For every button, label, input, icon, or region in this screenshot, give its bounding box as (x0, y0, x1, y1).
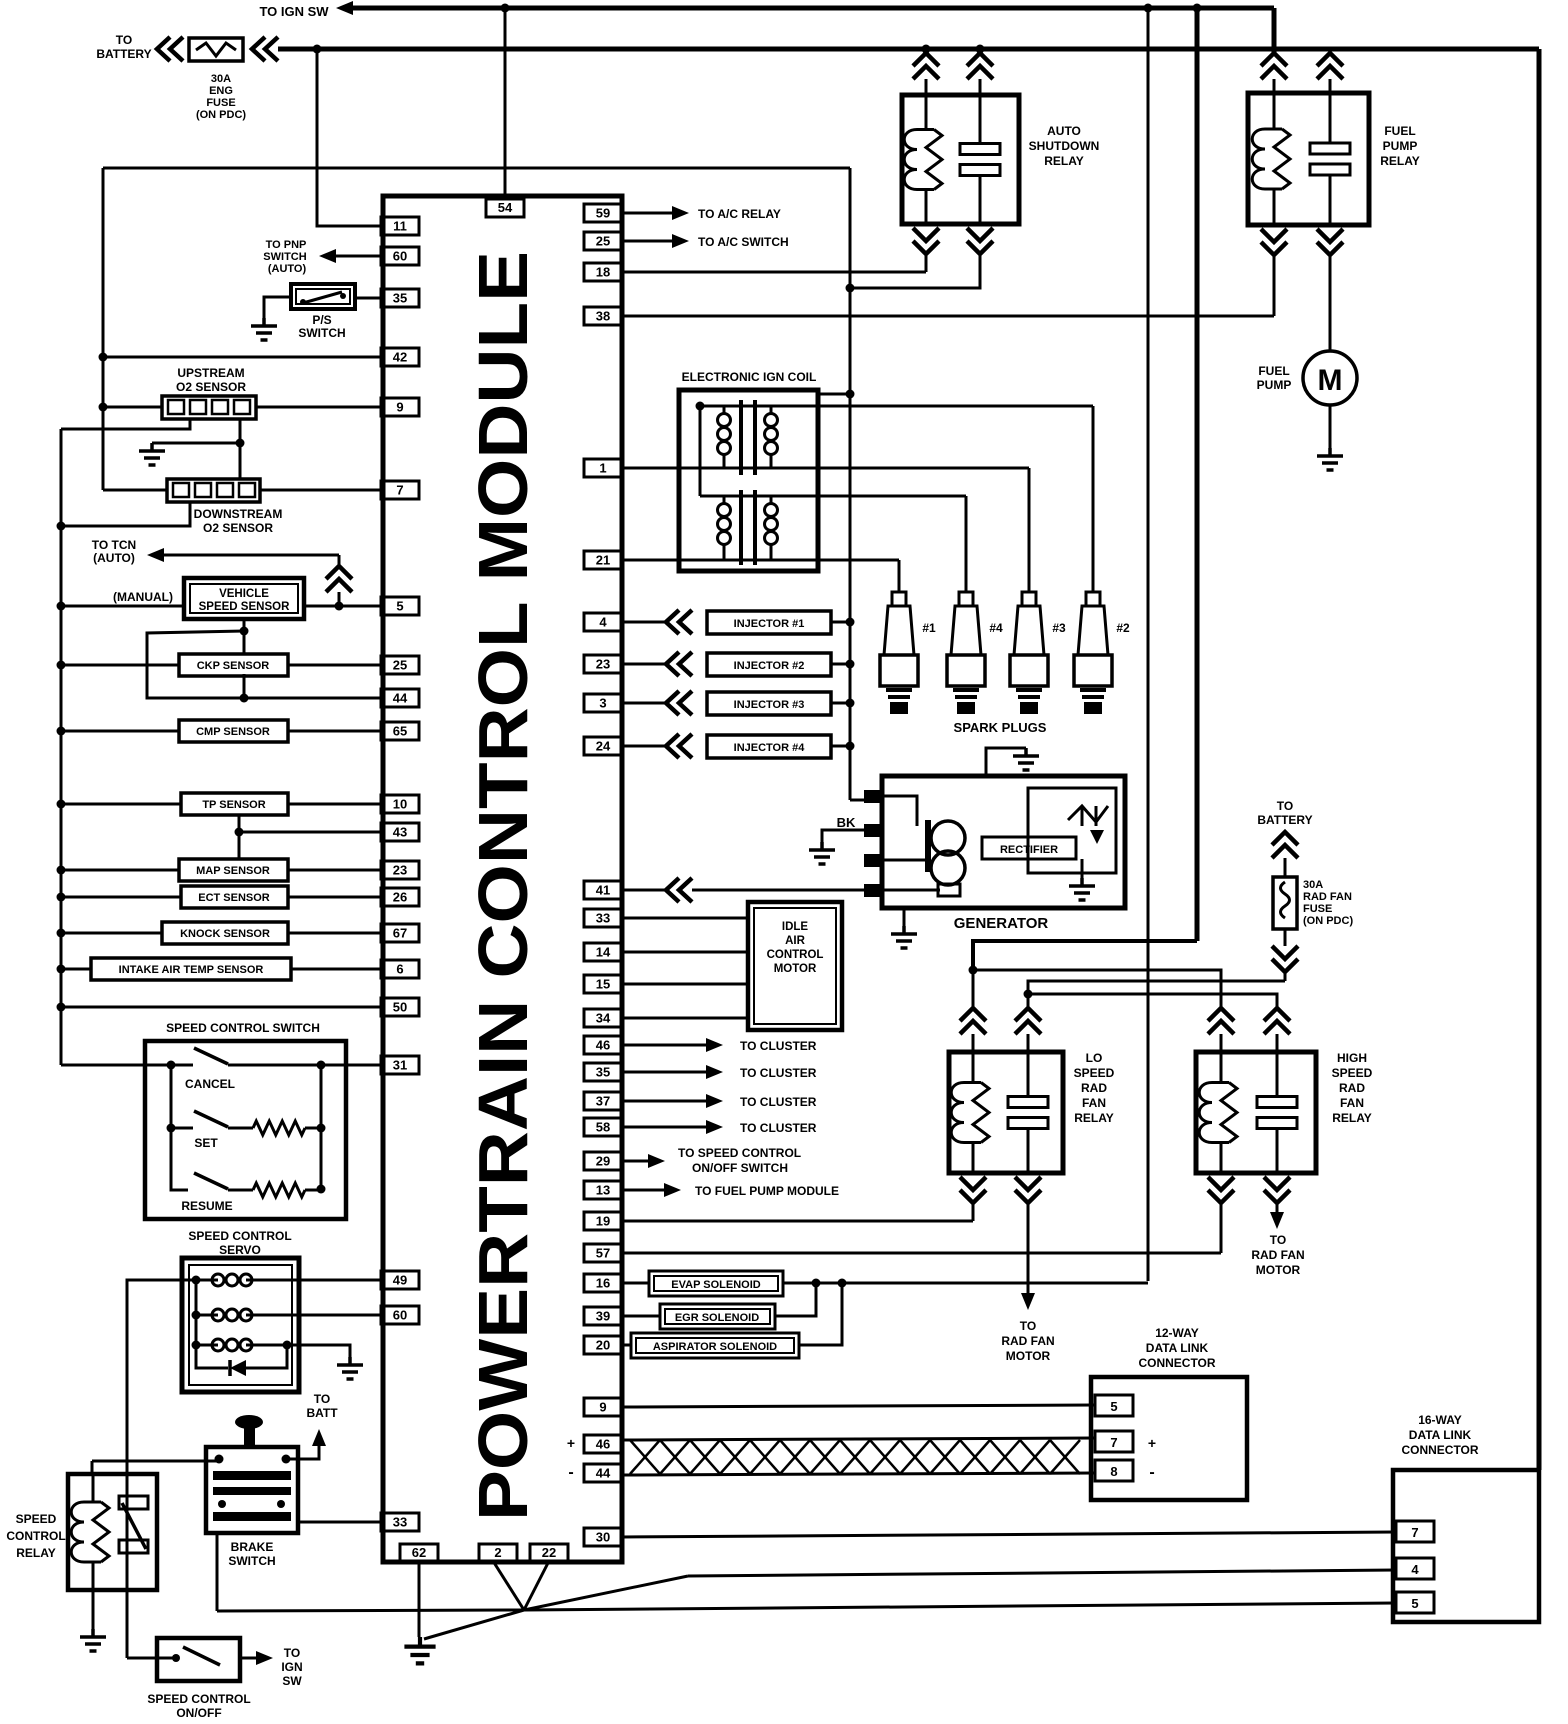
wire - junction diagonal to ground (424, 1610, 524, 1639)
wire - pin 9 to 12-way pin 5 (622, 1405, 1095, 1407)
node - VSS/CKP junction (240, 627, 249, 636)
svg-text:BATTERY: BATTERY (1257, 813, 1312, 827)
connector chevron - ASD coil feed (925, 49, 928, 53)
pin 65 - PCM left (381, 722, 419, 740)
svg-text:BATTERY: BATTERY (96, 47, 151, 61)
wire - servo coil1 to pin 49 (299, 1279, 381, 1282)
node - aspirator tie-in (838, 1279, 847, 1288)
pin 41 - PCM right (584, 881, 622, 899)
CKP sensor - box (179, 654, 288, 676)
pin 34 - PCM right (584, 1009, 622, 1027)
wire - TO BATTERY feed line across top (278, 47, 1539, 52)
pin 25 - PCM right (584, 232, 622, 250)
pin 2 - PCM bottom (479, 1544, 517, 1561)
svg-text:2: 2 (494, 1545, 501, 1560)
generator - rectifier inner box (1028, 788, 1116, 873)
svg-text:BK: BK (837, 815, 856, 830)
svg-text:AUTO: AUTO (1047, 124, 1081, 138)
svg-text:TO A/C RELAY: TO A/C RELAY (698, 207, 781, 221)
ground - P/S switch (251, 318, 277, 340)
svg-text:30: 30 (596, 1530, 610, 1545)
spark plug #1 (892, 591, 906, 594)
node - junction of IGN line and solenoid feed vertical (1144, 4, 1153, 13)
spark plug #2 (1086, 591, 1100, 594)
wire+chevron - VSS connector riser (338, 555, 341, 566)
12-way data link connector - box (1091, 1377, 1247, 1500)
ground - speed control relay (80, 1629, 106, 1651)
pin 4 - PCM right (584, 613, 622, 631)
node - CKP bottom junction (240, 694, 249, 703)
pin 37 - PCM right (584, 1092, 622, 1110)
lo speed rad fan relay - box (949, 1052, 1063, 1173)
svg-text:3: 3 (599, 696, 606, 711)
wire - pin 62 to ground (418, 1561, 421, 1637)
wire - TO TCN line from VSS chevron (164, 554, 339, 557)
spark plug #3 (1022, 591, 1036, 594)
wire - rail2 to pin 50 (61, 1006, 381, 1009)
svg-text:44: 44 (596, 1466, 611, 1481)
wire - coil box to injection feed rail (818, 393, 850, 396)
speed control relay - switch contacts (119, 1496, 148, 1509)
wire+arrow - pin 37 TO CLUSTER (622, 1100, 706, 1103)
node - cancel right contact (317, 1061, 326, 1070)
svg-text:7: 7 (396, 483, 403, 498)
wire - ECT sensor to pin 26 (288, 896, 381, 899)
svg-text:LO: LO (1086, 1051, 1103, 1065)
svg-text:CMP SENSOR: CMP SENSOR (196, 726, 270, 738)
spark plug #4 (959, 591, 973, 594)
wire - servo feed out left (127, 1280, 196, 1658)
svg-text:DATA LINK: DATA LINK (1409, 1428, 1472, 1442)
ground - generator case (891, 926, 917, 948)
generator - terminal 2 (864, 824, 884, 837)
node - rail2 junction VSS (57, 602, 66, 611)
wire - left rail1 bottom to downstream O2 connector (103, 489, 167, 492)
svg-text:PUMP: PUMP (1257, 378, 1292, 392)
wire - CKP sensor to pin 25 (288, 664, 381, 667)
pin 7 - 16-way connector (1396, 1521, 1434, 1542)
generator - terminal 3 (864, 854, 884, 867)
svg-text:TO: TO (116, 33, 132, 47)
arrow - to ign sw (left) (336, 1, 353, 15)
svg-text:IGN: IGN (281, 1660, 302, 1674)
node - servo coil3 right junction (283, 1341, 292, 1350)
generator - box (882, 776, 1125, 908)
EVAP solenoid - box (622, 1282, 649, 1285)
wire - right border from battery line to 16-way connector (1537, 49, 1542, 1470)
pin 13 - PCM right (584, 1181, 622, 1199)
injector #1 (622, 621, 666, 624)
svg-text:25: 25 (596, 234, 610, 249)
servo coil 1 (196, 1279, 218, 1282)
svg-text:RELAY: RELAY (1380, 154, 1420, 168)
pin 20 - PCM right (584, 1336, 622, 1354)
node - TP/MAP junction (235, 828, 244, 837)
wire - CMP sensor to pin 65 (288, 730, 381, 733)
pin 44 - PCM left (381, 689, 419, 707)
PCM - powertrain control module box (383, 196, 622, 1562)
pin 46 - PCM right (584, 1036, 622, 1054)
wire - P/S switch to ground (264, 297, 291, 318)
svg-text:TO A/C SWITCH: TO A/C SWITCH (698, 235, 789, 249)
svg-text:RELAY: RELAY (1332, 1111, 1372, 1125)
fuel pump relay - box (1248, 93, 1369, 225)
pin 30 - PCM bottom right (584, 1528, 622, 1546)
svg-text:8: 8 (1110, 1464, 1117, 1479)
pin 18 - PCM right (584, 263, 622, 281)
ground - servo (337, 1357, 363, 1379)
node - servo coil1 left (192, 1276, 201, 1285)
svg-text:9: 9 (396, 400, 403, 415)
wire - TP bottom branch to pin 43 (238, 815, 241, 860)
svg-text:-: - (1149, 1464, 1154, 1481)
wire - pin 2 diagonal to junction (493, 1561, 524, 1610)
wire - horizontal bus at y168 from left rail to ASD output rail (103, 167, 850, 170)
switch - on/off blade (183, 1647, 220, 1665)
svg-text:37: 37 (596, 1094, 610, 1109)
wire - V2 to rad fan relay coils (973, 941, 1197, 970)
wire+arrow - TO A/C RELAY (622, 212, 672, 215)
wire - servo coil2 to pin 60 (299, 1314, 381, 1317)
svg-text:CONTROL: CONTROL (6, 1529, 65, 1543)
wire - coil feed to LO relay (972, 970, 975, 1008)
lo speed rad fan relay - coil (972, 1034, 975, 1052)
svg-text:25: 25 (393, 658, 407, 673)
pin 7 - PCM left (381, 481, 419, 499)
wire - pin 18 to ASD relay coil (622, 271, 926, 274)
svg-text:+: + (567, 1435, 575, 1451)
fuse - 30A ENG FUSE (ON PDC) (189, 38, 243, 61)
svg-text:ASPIRATOR SOLENOID: ASPIRATOR SOLENOID (653, 1341, 777, 1353)
wire+arrow - pin 35 TO CLUSTER (622, 1071, 706, 1074)
svg-text:SPARK PLUGS: SPARK PLUGS (954, 720, 1047, 735)
svg-text:TO: TO (1277, 799, 1293, 813)
svg-text:ON/OFF: ON/OFF (176, 1706, 221, 1720)
svg-text:(AUTO): (AUTO) (268, 263, 307, 275)
wire - VSS to pin 5 (304, 605, 381, 608)
wire - IAT sensor to pin 6 (291, 968, 381, 971)
svg-text:SPEED CONTROL SWITCH: SPEED CONTROL SWITCH (166, 1021, 320, 1035)
svg-text:62: 62 (412, 1545, 426, 1560)
wire - left vertical rail 2 (60, 429, 63, 1065)
svg-text:39: 39 (596, 1309, 610, 1324)
connector chevron - HIGH relay contact output (1264, 1177, 1290, 1203)
generator - internal wiring (884, 796, 917, 826)
wire - upstream O2 connector to pin 9 (256, 406, 381, 409)
svg-text:DATA LINK: DATA LINK (1146, 1341, 1209, 1355)
svg-text:65: 65 (393, 724, 407, 739)
pin 22 - PCM bottom (530, 1544, 568, 1561)
twisted pair - CCD bus to 12-way connector (622, 1438, 1095, 1440)
node - ign coil top rail junction (696, 402, 705, 411)
node - junction of IGN line and rad fan relay coil feed vertical (1193, 4, 1202, 13)
pin 8 - 12-way connector (1095, 1460, 1133, 1481)
svg-text:15: 15 (596, 977, 610, 992)
node - rad fan coil feed junction (969, 966, 978, 975)
svg-text:35: 35 (596, 1065, 610, 1080)
pin 3 - PCM right (584, 694, 622, 712)
node - VSS output junction (335, 602, 344, 611)
svg-text:60: 60 (393, 1308, 407, 1323)
wire - pin 57 to HIGH rad fan relay coil return (622, 1252, 1221, 1255)
node - rail2 junction CKP (57, 661, 66, 670)
node - injector 1 feed (846, 618, 855, 627)
svg-text:21: 21 (596, 553, 610, 568)
svg-text:33: 33 (393, 1515, 407, 1530)
CMP sensor - box (179, 720, 288, 742)
svg-text:TO: TO (1020, 1319, 1036, 1333)
pin 26 - PCM left (381, 888, 419, 906)
wire - pin 54 riser to IGN line (504, 8, 507, 199)
high speed rad fan relay - box (1196, 1052, 1316, 1173)
svg-text:#1: #1 (922, 621, 936, 635)
pin 35 - PCM right (584, 1063, 622, 1081)
knock sensor - box (162, 922, 288, 944)
arrow - TO TCN (147, 548, 164, 562)
connector chevron - ASD contact output (967, 228, 993, 254)
wire - pin 14 to IAC (622, 951, 748, 954)
wire - LO contact to rad fan motor (1027, 1203, 1030, 1293)
svg-text:MOTOR: MOTOR (1256, 1263, 1301, 1277)
speed control on/off switch - box (157, 1638, 240, 1681)
pin 15 - PCM right (584, 975, 622, 993)
pin 31 - PCM left (381, 1056, 419, 1074)
svg-text:FUSE: FUSE (1303, 903, 1332, 915)
switch - RESUME blade (194, 1173, 228, 1189)
connector chevron - HIGH relay coil feed (1208, 1008, 1234, 1034)
node - servo coil2 left (192, 1311, 201, 1320)
injector #4 (622, 745, 666, 748)
svg-text:(ON PDC): (ON PDC) (1303, 915, 1353, 927)
connector chevron - LO relay coil feed (960, 1008, 986, 1034)
node - rail2 junction pin50 (57, 1003, 66, 1012)
wire - relay coil to ground (92, 1590, 95, 1629)
wire - pin 30 to 16-way pin 7 (622, 1532, 1396, 1537)
node - battery line to ASD contact (976, 45, 985, 54)
wire - cancel row to right rail (228, 1064, 321, 1067)
svg-text:MOTOR: MOTOR (1006, 1349, 1051, 1363)
connector chevron - rad fan fuse battery side (1272, 832, 1298, 858)
svg-text:59: 59 (596, 206, 610, 221)
wire - contact feed to HIGH relay (1028, 994, 1277, 1008)
wire - rail2 to vehicle speed sensor (61, 605, 184, 608)
svg-text:TO FUEL PUMP MODULE: TO FUEL PUMP MODULE (695, 1184, 839, 1198)
svg-text:TO PNP: TO PNP (266, 239, 307, 251)
wire - rad fan coil feed vertical V2 from IGN line (1195, 8, 1200, 941)
svg-text:SPEED: SPEED (1074, 1066, 1115, 1080)
svg-text:50: 50 (393, 1000, 407, 1015)
auto shutdown relay - contact (960, 144, 1000, 155)
wire - upstream O2 down branch to downstream connector (239, 419, 242, 480)
wire - switch right rail (320, 1065, 323, 1189)
pin 9 - PCM right (SCI) (584, 1398, 622, 1416)
electronic ign coil - box (679, 390, 818, 571)
connector chevron - LO relay contact feed (1015, 1008, 1041, 1034)
ign coil - transformer 1 core (739, 400, 743, 475)
pin 50 - PCM left (381, 998, 419, 1016)
node - servo coil3 left (192, 1341, 201, 1350)
node - rail2 junction IAT (57, 965, 66, 974)
svg-text:INJECTOR #2: INJECTOR #2 (734, 660, 805, 672)
node - battery line to ASD coil (922, 45, 931, 54)
svg-text:46: 46 (596, 1038, 610, 1053)
svg-text:EGR SOLENOID: EGR SOLENOID (675, 1312, 759, 1324)
wire - branch to O2 sensor ground (152, 442, 240, 445)
rectifier - label box (982, 837, 1076, 859)
svg-text:TO CLUSTER: TO CLUSTER (740, 1095, 817, 1109)
wire - rail2 to TP sensor (61, 803, 181, 806)
svg-text:INJECTOR #1: INJECTOR #1 (734, 618, 805, 630)
svg-text:16: 16 (596, 1276, 610, 1291)
pin 42 - PCM left (381, 348, 419, 366)
wire - rail2 to intake air temp sensor (61, 968, 91, 971)
svg-text:MOTOR: MOTOR (774, 963, 817, 975)
svg-text:SW: SW (282, 1674, 302, 1688)
svg-text:(AUTO): (AUTO) (93, 551, 135, 565)
svg-text:46: 46 (596, 1437, 610, 1452)
generator - diodes (1068, 806, 1108, 826)
svg-text:12-WAY: 12-WAY (1155, 1326, 1199, 1340)
generator - terminal 1 (864, 790, 884, 803)
svg-text:#3: #3 (1052, 621, 1066, 635)
wire - brake switch down to data link line (216, 1533, 219, 1611)
svg-text:7: 7 (1110, 1435, 1117, 1450)
wire - VSS bottom to CKP sensor (243, 619, 246, 655)
svg-text:SWITCH: SWITCH (263, 251, 306, 263)
svg-text:M: M (1318, 364, 1343, 397)
TP sensor - box (181, 793, 288, 815)
svg-text:SET: SET (194, 1136, 218, 1150)
svg-text:TO TCN: TO TCN (92, 538, 136, 552)
svg-text:24: 24 (596, 739, 611, 754)
svg-text:INJECTOR #4: INJECTOR #4 (734, 742, 806, 754)
svg-text:RELAY: RELAY (1044, 154, 1084, 168)
svg-text:RAD: RAD (1081, 1081, 1107, 1095)
connector chevron - ASD coil output (913, 228, 939, 254)
node - injection rail to ign coil (846, 390, 855, 399)
svg-text:7: 7 (1411, 1525, 1418, 1540)
fuse - 30A RAD FAN FUSE (ON PDC) (1273, 877, 1297, 929)
wire - pin 15 to IAC (622, 983, 748, 986)
svg-text:RAD: RAD (1339, 1081, 1365, 1095)
node - junction battery line / pin 11 riser (313, 45, 322, 54)
high speed rad fan relay - contact (1276, 1034, 1279, 1052)
wire - P/S switch to pin 35 (355, 297, 381, 300)
svg-text:23: 23 (596, 657, 610, 672)
wire+arrow - pin 58 TO CLUSTER (622, 1126, 706, 1129)
svg-text:41: 41 (596, 883, 610, 898)
wire - relay line into brake switch (92, 1460, 219, 1463)
pin 23 - PCM right (584, 655, 622, 673)
svg-text:35: 35 (393, 291, 407, 306)
svg-text:TO SPEED CONTROL: TO SPEED CONTROL (678, 1146, 801, 1160)
svg-text:FUEL: FUEL (1384, 124, 1415, 138)
generator - terminal 4 (864, 884, 884, 897)
wire - fuse to LO relay contact (1028, 981, 1285, 1008)
node - injector 2 feed (846, 660, 855, 669)
svg-text:4: 4 (1411, 1562, 1419, 1577)
svg-text:29: 29 (596, 1154, 610, 1169)
pin 57 - PCM right (584, 1244, 622, 1262)
svg-text:MAP SENSOR: MAP SENSOR (196, 865, 270, 877)
servo coil 3 (196, 1344, 218, 1347)
wire - speed control switch to pin 31 (321, 1064, 381, 1067)
vehicle speed sensor - box (184, 578, 304, 619)
pin 14 - PCM right (584, 943, 622, 961)
wire - left rail to upstream O2 connector (103, 406, 162, 409)
svg-text:6: 6 (396, 962, 403, 977)
wire - plug 2 lead (1092, 406, 1095, 592)
svg-text:ENG: ENG (209, 85, 233, 97)
node - cancel left contact (167, 1061, 176, 1070)
EGR solenoid - box (622, 1315, 660, 1318)
wire+arrow - on/off switch to ign sw (240, 1657, 256, 1660)
connector chevron - FP contact output (1317, 229, 1343, 255)
wire - servo coil3 to ground (287, 1345, 350, 1357)
pin 33 - PCM right (584, 909, 622, 927)
ECT sensor - box (181, 886, 288, 908)
svg-text:30A: 30A (211, 73, 231, 85)
svg-text:43: 43 (393, 825, 407, 840)
svg-text:KNOCK SENSOR: KNOCK SENSOR (180, 928, 270, 940)
wire - CKP bottom to junction (243, 674, 246, 698)
wire - BK terminal to ground (822, 830, 864, 842)
wire - rail2 into speed control switch (61, 1064, 171, 1067)
svg-text:SWITCH: SWITCH (298, 326, 345, 340)
node - rail2 junction CMP (57, 727, 66, 736)
svg-text:INJECTOR #3: INJECTOR #3 (734, 699, 805, 711)
wire - rail2 to CMP sensor (61, 730, 179, 733)
svg-text:FAN: FAN (1082, 1096, 1106, 1110)
svg-text:ON/OFF SWITCH: ON/OFF SWITCH (692, 1161, 788, 1175)
pin 60 - PCM left (381, 247, 419, 265)
wire - junction to pin 44 (244, 697, 381, 700)
svg-text:18: 18 (596, 265, 610, 280)
node - rail2 junction knock (57, 929, 66, 938)
pin 19 - PCM right (584, 1212, 622, 1230)
svg-text:SPEED CONTROL: SPEED CONTROL (147, 1692, 250, 1706)
svg-text:EVAP SOLENOID: EVAP SOLENOID (671, 1279, 761, 1291)
svg-text:TO CLUSTER: TO CLUSTER (740, 1066, 817, 1080)
pin 6 - PCM left (381, 960, 419, 978)
wire - left vertical rail 1 (102, 168, 105, 490)
wire - downstream O2 branch down to left rail 2 (61, 502, 190, 526)
wire - upstream O2 branch to left rail 2 (61, 419, 190, 429)
pin 5 - PCM left (381, 597, 419, 615)
svg-text:TO CLUSTER: TO CLUSTER (740, 1121, 817, 1135)
svg-text:SERVO: SERVO (219, 1243, 261, 1257)
connector - upstream O2 sensor (162, 396, 256, 419)
pin 25 - PCM left (381, 656, 419, 674)
svg-text:10: 10 (393, 797, 407, 812)
wire - feed to on/off switch (127, 1657, 173, 1660)
auto shutdown relay - coil (925, 95, 928, 130)
node - injector 3 feed (846, 699, 855, 708)
svg-text:P/S: P/S (312, 313, 331, 327)
wire - battery feed down to PCM pin 11 (317, 49, 381, 226)
svg-text:#4: #4 (989, 621, 1003, 635)
connector chevron - HIGH relay contact feed (1264, 1008, 1290, 1034)
lo speed rad fan relay - contact (1027, 1034, 1030, 1052)
svg-text:38: 38 (596, 309, 610, 324)
speed control relay - box (68, 1474, 157, 1590)
svg-text:14: 14 (596, 945, 611, 960)
ign coil - transformer 2 core (739, 490, 743, 565)
svg-text:CKP SENSOR: CKP SENSOR (197, 660, 270, 672)
pin 10 - PCM left (381, 795, 419, 813)
pin 21 - PCM right (584, 551, 622, 569)
wire - pin 19 to LO rad fan relay coil return (622, 1220, 973, 1223)
